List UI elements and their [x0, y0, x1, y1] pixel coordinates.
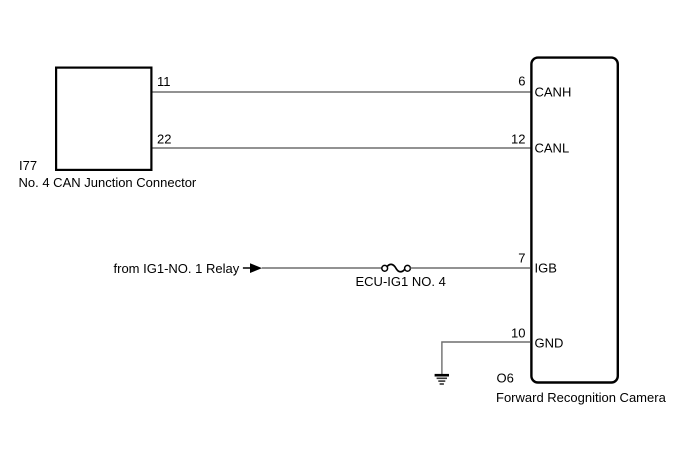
connector I77 box — [56, 68, 151, 170]
svg-text:10: 10 — [511, 326, 525, 341]
svg-text:GND: GND — [535, 336, 564, 351]
fuse ECU-IG1 NO. 4 left terminal — [382, 265, 388, 271]
wire IGB (arrow to fuse) — [262, 267, 382, 269]
svg-text:7: 7 — [518, 251, 525, 266]
wire GND (camera pin 10 to ground drop) — [442, 342, 531, 375]
camera O6 box — [531, 58, 617, 383]
wire CANH (I77 pin 11 to camera pin 6) — [153, 91, 531, 93]
wire IGB (fuse to camera pin 7) — [410, 267, 530, 269]
fuse right terminal — [405, 265, 411, 271]
svg-text:CANL: CANL — [535, 141, 570, 156]
svg-text:IGB: IGB — [535, 261, 557, 276]
ground symbol — [435, 375, 449, 384]
svg-text:ECU-IG1 NO. 4: ECU-IG1 NO. 4 — [356, 274, 446, 289]
svg-text:CANH: CANH — [535, 85, 572, 100]
svg-text:12: 12 — [511, 132, 525, 147]
arrow head — [250, 263, 262, 273]
svg-text:I77: I77 — [19, 158, 37, 173]
svg-text:6: 6 — [518, 74, 525, 89]
svg-text:O6: O6 — [497, 371, 514, 386]
wire CANL (I77 pin 22 to camera pin 12) — [153, 147, 531, 149]
svg-text:from IG1-NO. 1 Relay: from IG1-NO. 1 Relay — [114, 261, 240, 276]
svg-text:11: 11 — [157, 74, 171, 89]
arrow stub wire — [243, 267, 251, 269]
svg-text:22: 22 — [157, 132, 171, 147]
svg-text:Forward Recognition Camera: Forward Recognition Camera — [496, 390, 667, 405]
svg-text:No. 4 CAN Junction Connector: No. 4 CAN Junction Connector — [19, 175, 197, 190]
fuse element wavy line — [387, 264, 405, 271]
